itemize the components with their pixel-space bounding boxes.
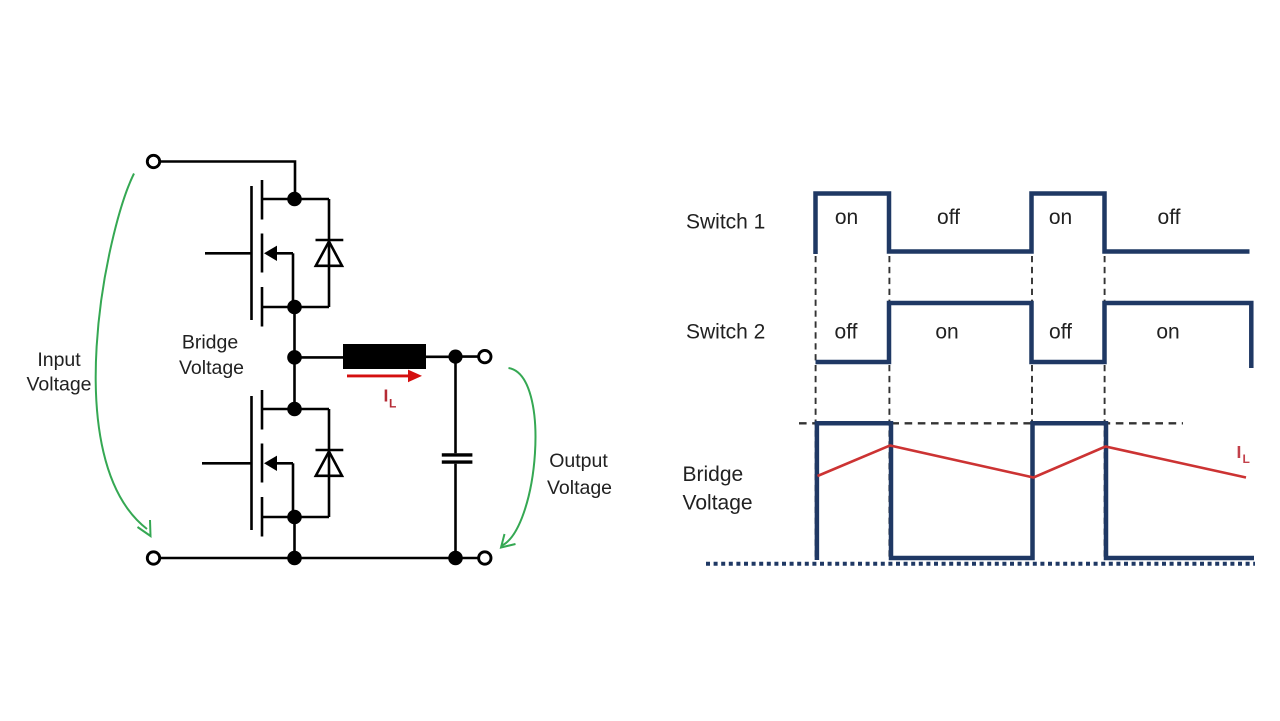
transistor Q1 (high-side MOSFET) xyxy=(205,180,329,327)
node bottom rail mid xyxy=(287,551,302,566)
red current arrow IL xyxy=(347,370,422,383)
green arrow output voltage xyxy=(501,368,535,548)
waveform Switch 1 xyxy=(816,194,1250,255)
red inductor current IL curve xyxy=(818,446,1247,478)
wire output node to terminal xyxy=(461,355,479,358)
wire top rail xyxy=(160,162,295,200)
waveform Switch 2 xyxy=(816,303,1252,368)
inductor L1 xyxy=(343,344,426,369)
svg-text:Voltage: Voltage xyxy=(26,374,91,396)
wire bottom rail xyxy=(160,557,479,560)
svg-text:Input: Input xyxy=(37,349,81,371)
dashed horizontal bridge-top level xyxy=(799,422,1183,424)
wire Q2 source to bottom rail xyxy=(293,517,296,558)
label Bridge Voltage (schematic) xyxy=(179,332,244,380)
node Q1 drain xyxy=(287,192,302,207)
label Output Voltage xyxy=(547,450,612,499)
terminal input bottom xyxy=(147,552,159,564)
dashed vertical t4 xyxy=(1104,256,1106,557)
green arrow input voltage xyxy=(96,174,151,537)
capacitor C1 xyxy=(442,455,473,462)
dashed vertical t1 xyxy=(815,256,817,557)
node Q2 drain xyxy=(287,402,302,417)
svg-text:L: L xyxy=(389,397,396,411)
svg-text:Output: Output xyxy=(549,450,608,472)
terminal output bottom xyxy=(479,552,491,564)
svg-text:L: L xyxy=(1243,452,1250,466)
svg-text:on: on xyxy=(1049,206,1072,229)
svg-text:Switch 2: Switch 2 xyxy=(686,320,765,343)
svg-text:off: off xyxy=(835,320,858,343)
svg-text:off: off xyxy=(1158,206,1181,229)
wire trunk Q1 source to Q2 drain xyxy=(293,307,296,409)
svg-text:on: on xyxy=(1156,320,1179,343)
waveform Bridge Voltage xyxy=(817,423,1254,560)
svg-text:Voltage: Voltage xyxy=(179,357,244,379)
wire inductor to output node xyxy=(426,355,450,358)
dashed vertical t3 xyxy=(1031,256,1033,557)
svg-text:Switch 1: Switch 1 xyxy=(686,210,765,233)
terminal input top xyxy=(147,155,159,167)
svg-text:Voltage: Voltage xyxy=(683,492,753,515)
svg-text:I: I xyxy=(1237,442,1242,462)
label Bridge Voltage (timing) xyxy=(683,463,753,515)
transistor Q2 (low-side MOSFET) xyxy=(202,390,329,537)
node bottom rail right xyxy=(448,551,463,566)
node Q2 source xyxy=(287,510,302,525)
node output top xyxy=(448,350,462,364)
diode D1 (body diode of Q1) xyxy=(316,199,344,307)
capacitor C1 wire top xyxy=(454,357,457,454)
label Input Voltage xyxy=(26,349,91,396)
dotted zero baseline xyxy=(706,562,1255,566)
svg-text:Voltage: Voltage xyxy=(547,477,612,499)
diode D2 (body diode of Q2) xyxy=(316,409,344,517)
wire bridge node to inductor xyxy=(295,356,345,359)
node bridge xyxy=(287,350,302,365)
svg-text:on: on xyxy=(835,206,858,229)
label IL (red, right) xyxy=(1237,442,1250,466)
capacitor C1 wire bottom xyxy=(454,464,457,558)
svg-text:I: I xyxy=(384,386,389,406)
label IL (red, under inductor) xyxy=(384,386,397,411)
svg-text:on: on xyxy=(935,320,958,343)
svg-text:off: off xyxy=(1049,320,1072,343)
svg-text:Bridge: Bridge xyxy=(182,332,238,354)
svg-text:Bridge: Bridge xyxy=(683,463,744,486)
terminal output top xyxy=(479,350,491,362)
dashed vertical t2 xyxy=(888,256,890,557)
node Q1 source xyxy=(287,300,302,315)
svg-text:off: off xyxy=(937,206,960,229)
